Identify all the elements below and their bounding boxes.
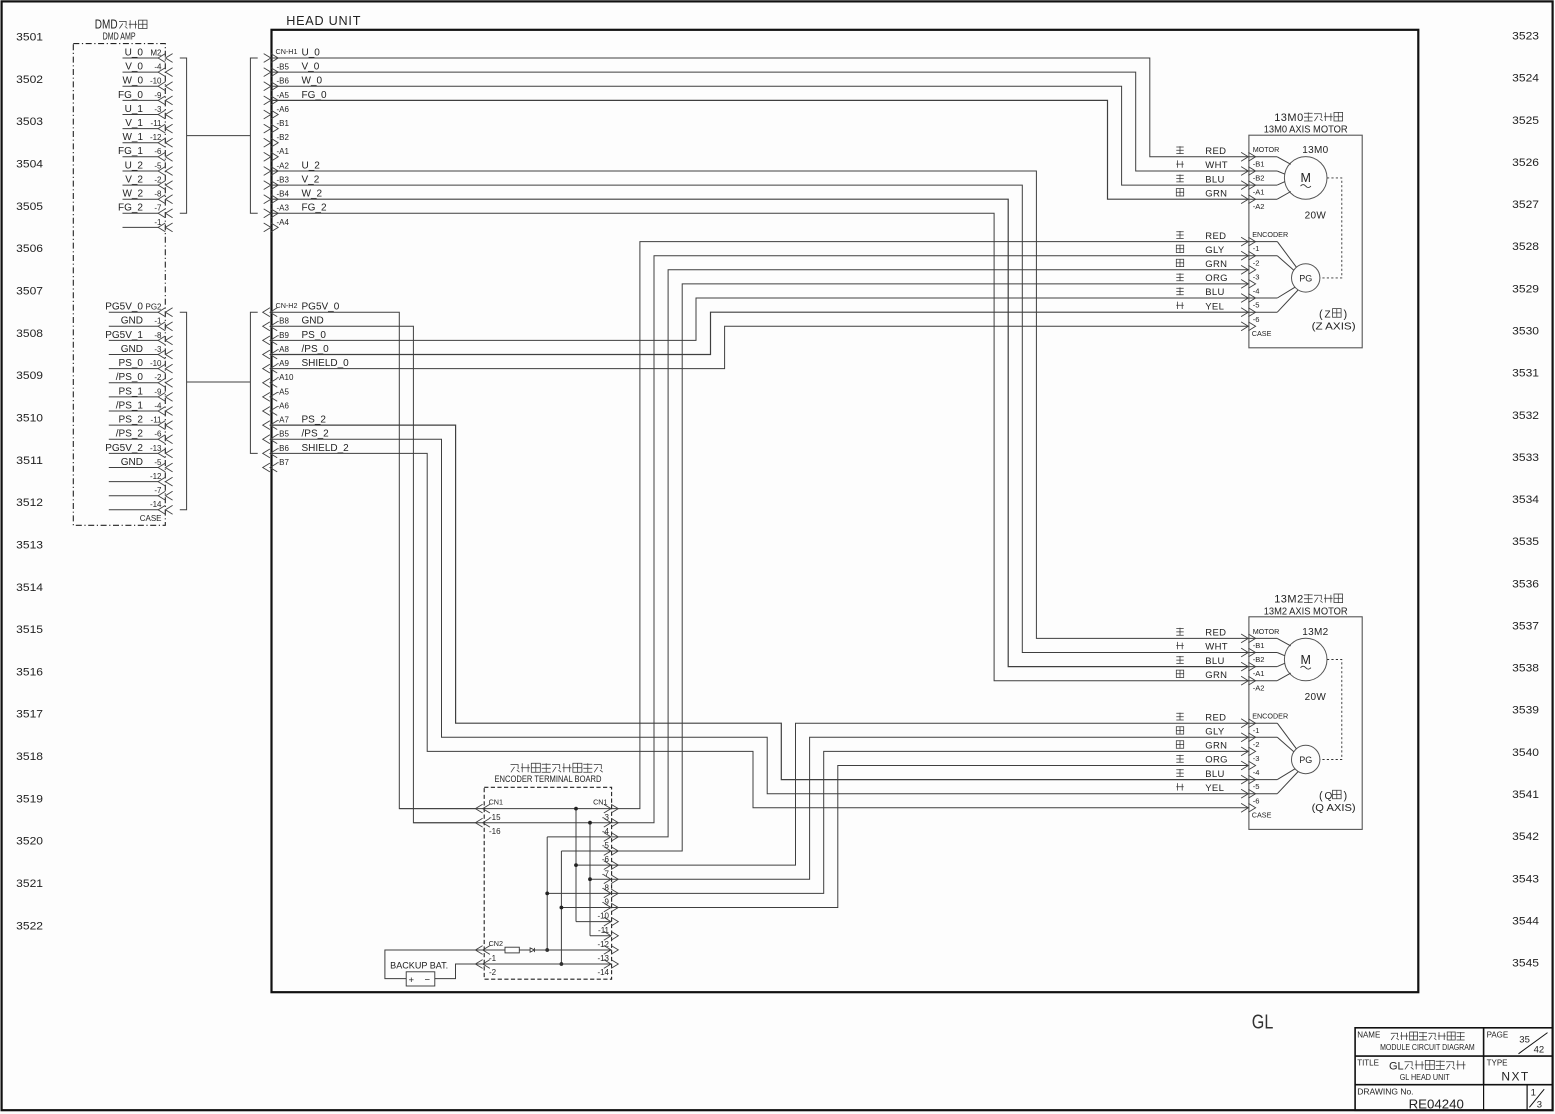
svg-text:RE04240: RE04240 bbox=[1409, 1097, 1464, 1112]
motor unit 13M2 box bbox=[1249, 617, 1362, 830]
svg-text:CASE: CASE bbox=[1252, 329, 1272, 338]
svg-text:RED: RED bbox=[1205, 231, 1226, 242]
wire /PS_2 (CN-H2 to 13M2 encoder YEL pin -5) bbox=[272, 439, 1249, 794]
svg-text:(: ( bbox=[1319, 790, 1323, 802]
svg-text:3544: 3544 bbox=[1512, 915, 1539, 927]
cable bracket DMD AMP group-2 bbox=[180, 312, 187, 510]
svg-text:-A4: -A4 bbox=[277, 218, 290, 227]
wire PS_2 (CN-H2 to 13M2 encoder BLU pin -4) bbox=[272, 425, 1249, 779]
svg-text:-B2: -B2 bbox=[277, 133, 290, 142]
svg-text:13M0 AXIS MOTOR: 13M0 AXIS MOTOR bbox=[1264, 125, 1348, 136]
svg-text:-5: -5 bbox=[602, 841, 610, 850]
wire CN1-9 to 13M2 encoder GRN pin -3 bbox=[547, 751, 1249, 893]
svg-text:FG_2: FG_2 bbox=[302, 203, 327, 214]
svg-text:-1: -1 bbox=[154, 218, 162, 227]
svg-text:GRN: GRN bbox=[1205, 670, 1227, 681]
svg-text:3503: 3503 bbox=[16, 116, 43, 128]
svg-text:DMD: DMD bbox=[95, 18, 118, 32]
svg-text:-A3: -A3 bbox=[277, 204, 290, 213]
left margin line numbers 3501-3522 bbox=[16, 32, 43, 933]
wire CN1-10 to 13M2 encoder ORG pin -4 bbox=[561, 766, 1249, 908]
HEAD UNIT enclosure box bbox=[272, 30, 1419, 992]
svg-text:-B1: -B1 bbox=[1253, 159, 1265, 168]
svg-text:GND: GND bbox=[121, 316, 143, 327]
svg-text:3504: 3504 bbox=[16, 159, 43, 171]
label encoder terminal board (Japanese) bbox=[511, 765, 520, 773]
svg-text:GRN: GRN bbox=[1205, 741, 1227, 752]
svg-text:3537: 3537 bbox=[1512, 621, 1539, 633]
svg-text:PG: PG bbox=[1299, 273, 1312, 283]
svg-text:GL HEAD UNIT: GL HEAD UNIT bbox=[1400, 1072, 1450, 1082]
svg-text:-B8: -B8 bbox=[277, 317, 290, 326]
svg-text:Q: Q bbox=[1325, 791, 1333, 802]
svg-text:-8: -8 bbox=[154, 190, 162, 199]
svg-text:GL: GL bbox=[1389, 1060, 1404, 1072]
svg-text:GND: GND bbox=[121, 457, 143, 468]
cable bundle line group-1 bbox=[187, 135, 251, 137]
wire U_0 (CN-H1 to 13M0 motor RED) bbox=[272, 58, 1249, 157]
svg-text:TITLE: TITLE bbox=[1357, 1058, 1379, 1067]
encoder PG circle 13M0 bbox=[1292, 264, 1320, 292]
svg-text:PG2: PG2 bbox=[145, 303, 162, 312]
svg-text:-7: -7 bbox=[154, 204, 162, 213]
svg-text:3514: 3514 bbox=[16, 582, 43, 594]
svg-text:GLY: GLY bbox=[1205, 727, 1225, 738]
svg-text:GLY: GLY bbox=[1205, 245, 1225, 256]
svg-text:-6: -6 bbox=[154, 147, 162, 156]
svg-text:-3: -3 bbox=[154, 105, 162, 114]
svg-text:3509: 3509 bbox=[16, 370, 43, 382]
svg-text:HEAD UNIT: HEAD UNIT bbox=[286, 13, 361, 28]
wire SHIELD_0 (CN-H2 to 13M0 encoder CASE pin -6) bbox=[272, 326, 1249, 368]
right margin line numbers 3523-3545 bbox=[1512, 31, 1539, 970]
svg-text:3502: 3502 bbox=[16, 74, 43, 86]
svg-text:PG5V_0: PG5V_0 bbox=[105, 302, 143, 313]
svg-text:3501: 3501 bbox=[16, 32, 43, 44]
svg-text:3540: 3540 bbox=[1512, 747, 1539, 759]
wire BAT+ net CN1-5 to 13M0 encoder GRN pin -3 bbox=[547, 270, 1249, 837]
svg-text:3543: 3543 bbox=[1512, 873, 1539, 885]
encoder PG circle 13M2 bbox=[1292, 745, 1320, 773]
wire PG5V_0 (CN-H2 down to terminal board CN1-15) bbox=[272, 312, 476, 808]
diode D1 bbox=[530, 948, 534, 952]
cable bracket CN-H1 side bbox=[250, 58, 257, 213]
svg-text:3507: 3507 bbox=[16, 286, 43, 298]
svg-text:-A7: -A7 bbox=[277, 416, 290, 425]
svg-text:W_2: W_2 bbox=[302, 189, 323, 200]
svg-text:3512: 3512 bbox=[16, 497, 43, 509]
svg-text:-B5: -B5 bbox=[277, 63, 290, 72]
svg-text:CASE: CASE bbox=[140, 514, 162, 523]
svg-text:13M0: 13M0 bbox=[1302, 145, 1328, 156]
svg-text:W_1: W_1 bbox=[122, 132, 143, 143]
svg-text:-B9: -B9 bbox=[277, 331, 290, 340]
svg-text:3532: 3532 bbox=[1512, 410, 1539, 422]
svg-text:20W: 20W bbox=[1305, 692, 1327, 703]
svg-text:FG_1: FG_1 bbox=[118, 146, 143, 157]
connector CN1 left side pins -15 -16 bbox=[475, 797, 503, 836]
svg-text:1: 1 bbox=[1531, 1088, 1536, 1099]
svg-text:V_2: V_2 bbox=[125, 175, 143, 186]
wire GND net CN1-4 to 13M0 encoder GLY pin -2 bbox=[612, 256, 1249, 823]
svg-text:−: − bbox=[425, 974, 431, 985]
svg-text:3510: 3510 bbox=[16, 413, 43, 425]
svg-text:): ) bbox=[1344, 790, 1348, 802]
svg-text:3516: 3516 bbox=[16, 666, 43, 678]
svg-text:-B6: -B6 bbox=[277, 77, 290, 86]
svg-text:-2: -2 bbox=[1253, 258, 1260, 267]
connector PG2 (DMD AMP) group-2 pins with wires and chevrons bbox=[105, 302, 172, 317]
svg-text:-4: -4 bbox=[154, 63, 162, 72]
svg-text:-13: -13 bbox=[150, 444, 162, 453]
svg-text:3534: 3534 bbox=[1512, 494, 1539, 506]
wire FG_2 (to 13M2 GRN) bbox=[272, 213, 1249, 680]
svg-text:-A5: -A5 bbox=[277, 387, 290, 396]
svg-text:3523: 3523 bbox=[1512, 31, 1539, 43]
svg-text:3536: 3536 bbox=[1512, 578, 1539, 590]
DMD AMP dashed enclosure bbox=[73, 44, 165, 526]
wires ENCODER pins to PG circle bbox=[1277, 723, 1298, 794]
svg-text:-2: -2 bbox=[154, 373, 162, 382]
connector CN1 right side pins -3 .. -14 bbox=[593, 797, 618, 977]
svg-text:PS_2: PS_2 bbox=[302, 415, 327, 426]
svg-text:ORG: ORG bbox=[1205, 755, 1228, 766]
wire CN1-8 to 13M2 encoder GLY pin -2 bbox=[590, 737, 1249, 879]
title block table bbox=[1355, 1028, 1553, 1111]
svg-text:V_1: V_1 bbox=[125, 118, 143, 129]
svg-text:ENCODER TERMINAL BOARD: ENCODER TERMINAL BOARD bbox=[495, 774, 602, 784]
svg-text:GL: GL bbox=[1252, 1012, 1274, 1034]
svg-text:W_2: W_2 bbox=[122, 189, 143, 200]
svg-text:PG5V_2: PG5V_2 bbox=[105, 443, 143, 454]
svg-text:3531: 3531 bbox=[1512, 368, 1539, 380]
svg-text:FG_2: FG_2 bbox=[118, 203, 143, 214]
connector ENCODER pins of 13M0 bbox=[1241, 230, 1288, 338]
svg-text:-1: -1 bbox=[1253, 726, 1260, 735]
svg-text:-A1: -A1 bbox=[1253, 669, 1265, 678]
svg-text:-14: -14 bbox=[150, 500, 162, 509]
svg-text:U_1: U_1 bbox=[125, 104, 144, 115]
svg-text:U_0: U_0 bbox=[302, 47, 321, 58]
title block texts bbox=[1357, 1030, 1547, 1111]
svg-text:3545: 3545 bbox=[1512, 958, 1539, 970]
svg-text:RED: RED bbox=[1205, 712, 1226, 723]
connector MOTOR pins of 13M2 bbox=[1241, 627, 1279, 693]
svg-text:SHIELD_2: SHIELD_2 bbox=[302, 443, 350, 454]
resistor R1 (battery series) bbox=[505, 947, 519, 953]
wire /PS_0 (CN-H2 to 13M0 encoder YEL pin -5) bbox=[272, 312, 1249, 354]
svg-text:-5: -5 bbox=[1253, 301, 1260, 310]
svg-text:CN-H2: CN-H2 bbox=[276, 301, 298, 310]
svg-text:3528: 3528 bbox=[1512, 241, 1539, 253]
wire colour labels (kanji + abbrev) for 13M0 motor pins bbox=[1176, 146, 1228, 312]
svg-text:-B2: -B2 bbox=[1253, 655, 1265, 664]
wire W_0 (to 13M0 BLU) bbox=[272, 86, 1249, 185]
svg-text:U_0: U_0 bbox=[125, 47, 144, 58]
svg-text:(: ( bbox=[1319, 308, 1323, 320]
svg-text:-10: -10 bbox=[150, 359, 162, 368]
svg-text:3524: 3524 bbox=[1512, 73, 1539, 85]
svg-text:BLU: BLU bbox=[1205, 174, 1224, 185]
junction dots on terminal board rails bbox=[574, 807, 578, 811]
svg-text:3541: 3541 bbox=[1512, 789, 1539, 801]
svg-text:-8: -8 bbox=[154, 331, 162, 340]
connector MOTOR pins of 13M0 bbox=[1241, 145, 1279, 211]
svg-text:MOTOR: MOTOR bbox=[1253, 627, 1280, 636]
motor M circle 13M2 bbox=[1284, 627, 1328, 703]
svg-text:-8: -8 bbox=[602, 884, 610, 893]
wire V_2 (to 13M2 WHT) bbox=[272, 185, 1249, 652]
svg-text:-10: -10 bbox=[150, 77, 162, 86]
wire PS_0 (CN-H2 to 13M0 encoder BLU pin -4) bbox=[272, 298, 1249, 340]
cable bundle line group-2 bbox=[187, 381, 251, 383]
svg-text:M: M bbox=[1300, 171, 1310, 185]
svg-text:-3: -3 bbox=[1253, 754, 1260, 763]
svg-text:-B5: -B5 bbox=[277, 430, 290, 439]
wire stub CN1-12 bbox=[590, 935, 612, 937]
svg-text:GRN: GRN bbox=[1205, 188, 1227, 199]
svg-text:-14: -14 bbox=[597, 968, 609, 977]
svg-text:-9: -9 bbox=[154, 387, 162, 396]
svg-text:20W: 20W bbox=[1305, 210, 1327, 221]
svg-text:Z: Z bbox=[1325, 309, 1331, 320]
svg-text:ORG: ORG bbox=[1205, 273, 1228, 284]
svg-text:PS_0: PS_0 bbox=[302, 330, 327, 341]
svg-text:3515: 3515 bbox=[16, 624, 43, 636]
label axis name (Z AXIS) bbox=[1312, 308, 1356, 332]
dashed mechanical link M to PG bbox=[1320, 660, 1342, 760]
svg-text:M: M bbox=[1300, 653, 1310, 667]
svg-text:CN1: CN1 bbox=[489, 797, 503, 806]
svg-text:-A10: -A10 bbox=[277, 373, 294, 382]
svg-text:-3: -3 bbox=[154, 345, 162, 354]
wire PG5V net CN1-3 to 13M0 encoder RED pin -1 bbox=[612, 242, 1249, 809]
svg-text:3522: 3522 bbox=[16, 920, 43, 932]
svg-text:-6: -6 bbox=[602, 855, 610, 864]
svg-text:13M2 AXIS MOTOR: 13M2 AXIS MOTOR bbox=[1264, 606, 1348, 617]
svg-text:BACKUP BAT.: BACKUP BAT. bbox=[390, 960, 448, 970]
svg-text:-4: -4 bbox=[1253, 768, 1260, 777]
svg-text:-3: -3 bbox=[602, 813, 610, 822]
svg-text:M2: M2 bbox=[150, 48, 162, 57]
connector ENCODER pins of 13M2 bbox=[1241, 712, 1288, 820]
svg-text:BLU: BLU bbox=[1205, 769, 1224, 780]
svg-text:-A2: -A2 bbox=[1253, 683, 1265, 692]
wire V_0 (to 13M0 WHT) bbox=[272, 72, 1249, 171]
svg-text:-7: -7 bbox=[154, 486, 162, 495]
svg-text:-B1: -B1 bbox=[1253, 641, 1265, 650]
svg-text:-B6: -B6 bbox=[277, 444, 290, 453]
svg-text:-A2: -A2 bbox=[1253, 202, 1265, 211]
svg-text:NAME: NAME bbox=[1357, 1030, 1380, 1039]
svg-text:/PS_0: /PS_0 bbox=[302, 344, 330, 355]
wire CN1-16 through to CN1-4 (GND rail) bbox=[413, 822, 611, 824]
svg-text:3530: 3530 bbox=[1512, 326, 1539, 338]
svg-text:DRAWING No.: DRAWING No. bbox=[1357, 1086, 1413, 1096]
svg-text:3526: 3526 bbox=[1512, 157, 1539, 169]
svg-text:-5: -5 bbox=[154, 161, 162, 170]
svg-text:3506: 3506 bbox=[16, 243, 43, 255]
svg-text:-B7: -B7 bbox=[277, 458, 290, 467]
svg-text:MODULE CIRCUIT DIAGRAM: MODULE CIRCUIT DIAGRAM bbox=[1380, 1042, 1475, 1052]
connector CN-H2 pins, chevrons and labels bbox=[263, 301, 340, 317]
svg-text:3538: 3538 bbox=[1512, 663, 1539, 675]
internal rail GND vertical (CN1-16 to CN1-8/-12) bbox=[589, 823, 591, 936]
svg-text:-A1: -A1 bbox=[277, 147, 290, 156]
svg-text:CN-H1: CN-H1 bbox=[276, 47, 298, 56]
svg-text:DMD AMP: DMD AMP bbox=[103, 32, 136, 43]
svg-text:GND: GND bbox=[302, 316, 324, 327]
svg-text:-A1: -A1 bbox=[1253, 188, 1265, 197]
svg-text:WHT: WHT bbox=[1205, 160, 1228, 171]
svg-text:3508: 3508 bbox=[16, 328, 43, 340]
svg-text:13M2: 13M2 bbox=[1274, 594, 1304, 606]
svg-text:-A2: -A2 bbox=[277, 161, 290, 170]
cable bracket DMD AMP group-1 bbox=[180, 58, 187, 213]
svg-text:35: 35 bbox=[1519, 1035, 1530, 1046]
wires MOTOR pins to M circle bbox=[1277, 157, 1291, 199]
svg-text:-A5: -A5 bbox=[277, 91, 290, 100]
svg-text:3511: 3511 bbox=[16, 455, 43, 467]
svg-text:PS_0: PS_0 bbox=[119, 358, 144, 369]
svg-text:WHT: WHT bbox=[1205, 642, 1228, 653]
svg-text:3539: 3539 bbox=[1512, 705, 1539, 717]
wire BAT- net CN1-6 to 13M0 encoder ORG pin -4 bbox=[561, 284, 1249, 851]
connector M2 (DMD AMP) group-1 pins with wires and chevrons bbox=[123, 47, 173, 62]
svg-text:+: + bbox=[409, 975, 415, 986]
svg-text:PG: PG bbox=[1299, 755, 1312, 765]
svg-text:13M2: 13M2 bbox=[1302, 627, 1328, 638]
svg-text:RED: RED bbox=[1205, 146, 1226, 157]
svg-text:FG_0: FG_0 bbox=[118, 90, 143, 101]
svg-text:3518: 3518 bbox=[16, 751, 43, 763]
svg-text:-4: -4 bbox=[154, 401, 162, 410]
svg-text:V_0: V_0 bbox=[125, 62, 143, 73]
svg-text:3513: 3513 bbox=[16, 539, 43, 551]
svg-text:V_0: V_0 bbox=[302, 62, 320, 73]
svg-text:-A9: -A9 bbox=[277, 359, 290, 368]
svg-text:V_2: V_2 bbox=[302, 175, 320, 186]
wire CN2-1 battery + line with resistor and diode bbox=[476, 949, 505, 951]
svg-text:-9: -9 bbox=[602, 898, 610, 907]
svg-text:U_2: U_2 bbox=[302, 160, 321, 171]
svg-text:3529: 3529 bbox=[1512, 283, 1539, 295]
wire battery - lead bbox=[435, 964, 476, 979]
svg-text:3533: 3533 bbox=[1512, 452, 1539, 464]
wire stub CN1-11 bbox=[576, 921, 612, 923]
wire battery + lead bbox=[385, 950, 476, 979]
label axis name (Q AXIS) bbox=[1312, 790, 1356, 814]
svg-text:PAGE: PAGE bbox=[1487, 1030, 1509, 1039]
svg-text:PG5V_0: PG5V_0 bbox=[302, 302, 340, 313]
svg-text:RED: RED bbox=[1205, 628, 1226, 639]
svg-text:-1: -1 bbox=[1253, 244, 1260, 253]
svg-text:-4: -4 bbox=[602, 827, 610, 836]
svg-text:CASE: CASE bbox=[1252, 811, 1272, 820]
wire SHIELD_2 (CN-H2 to 13M2 encoder CASE pin -6) bbox=[272, 453, 1249, 807]
svg-text:-1: -1 bbox=[489, 954, 497, 963]
svg-text:-4: -4 bbox=[1253, 287, 1260, 296]
svg-text:3: 3 bbox=[1537, 1100, 1542, 1111]
wire CN2-2 battery - line bbox=[456, 963, 612, 965]
svg-text:YEL: YEL bbox=[1205, 783, 1224, 794]
svg-text:-2: -2 bbox=[489, 968, 497, 977]
svg-text:3505: 3505 bbox=[16, 201, 43, 213]
svg-text:U_2: U_2 bbox=[125, 160, 144, 171]
cable bracket CN-H2 side bbox=[250, 312, 257, 453]
svg-text:SHIELD_0: SHIELD_0 bbox=[302, 358, 350, 369]
svg-text:-16: -16 bbox=[489, 827, 501, 836]
svg-text:BLU: BLU bbox=[1205, 656, 1224, 667]
svg-text:/PS_1: /PS_1 bbox=[116, 400, 144, 411]
svg-text:-2: -2 bbox=[154, 176, 162, 185]
svg-text:W_0: W_0 bbox=[122, 76, 143, 87]
svg-text:-12: -12 bbox=[150, 472, 162, 481]
svg-text:-6: -6 bbox=[1253, 796, 1260, 805]
svg-text:3521: 3521 bbox=[16, 878, 43, 890]
dashed mechanical link M to PG bbox=[1320, 178, 1342, 278]
svg-text:GND: GND bbox=[121, 344, 143, 355]
motor unit 13M0 box bbox=[1249, 135, 1362, 348]
svg-text:FG_0: FG_0 bbox=[302, 90, 327, 101]
svg-text:-9: -9 bbox=[154, 91, 162, 100]
svg-text:W_0: W_0 bbox=[302, 76, 323, 87]
svg-text:-5: -5 bbox=[154, 458, 162, 467]
svg-text:3527: 3527 bbox=[1512, 199, 1539, 211]
svg-text:-A8: -A8 bbox=[277, 345, 290, 354]
svg-text:-3: -3 bbox=[1253, 272, 1260, 281]
svg-text:(Q AXIS): (Q AXIS) bbox=[1312, 803, 1356, 814]
wires MOTOR pins to M circle bbox=[1277, 638, 1291, 680]
svg-text:-B1: -B1 bbox=[277, 119, 290, 128]
svg-text:MOTOR: MOTOR bbox=[1253, 145, 1280, 154]
wires ENCODER pins to PG circle bbox=[1277, 242, 1298, 313]
svg-text:PG5V_1: PG5V_1 bbox=[105, 330, 143, 341]
svg-text:NXT: NXT bbox=[1501, 1070, 1529, 1084]
svg-text:3520: 3520 bbox=[16, 836, 43, 848]
svg-text:PS_1: PS_1 bbox=[119, 386, 144, 397]
motor M circle 13M0 bbox=[1284, 145, 1328, 221]
svg-text:BLU: BLU bbox=[1205, 287, 1224, 298]
svg-text:YEL: YEL bbox=[1205, 301, 1224, 312]
svg-text:CN2: CN2 bbox=[489, 939, 503, 948]
svg-text:-15: -15 bbox=[489, 813, 501, 822]
svg-text:/PS_0: /PS_0 bbox=[116, 372, 144, 383]
connector CN2 pins -1 -2 bbox=[475, 939, 503, 977]
svg-text:ENCODER: ENCODER bbox=[1252, 712, 1288, 721]
svg-text:13M0: 13M0 bbox=[1274, 112, 1304, 124]
wire CN1-7 to 13M2 encoder RED pin -1 bbox=[576, 723, 1249, 865]
svg-text:/PS_2: /PS_2 bbox=[116, 429, 144, 440]
svg-text:3535: 3535 bbox=[1512, 536, 1539, 548]
svg-text:-B3: -B3 bbox=[277, 176, 290, 185]
wire U_2 (CN-H1 to 13M2 motor RED) bbox=[272, 171, 1249, 638]
svg-text:42: 42 bbox=[1534, 1045, 1545, 1056]
svg-text:-5: -5 bbox=[1253, 782, 1260, 791]
svg-text:3542: 3542 bbox=[1512, 831, 1539, 843]
wire GND (CN-H2 down to terminal board CN1-16) bbox=[272, 326, 476, 822]
svg-text:-11: -11 bbox=[151, 119, 163, 128]
svg-text:3519: 3519 bbox=[16, 793, 43, 805]
svg-text:-7: -7 bbox=[602, 869, 610, 878]
wire FG_0 (to 13M0 GRN) bbox=[272, 100, 1249, 199]
connector CN-H1 pins, chevrons and labels bbox=[264, 47, 321, 63]
wire colour labels (kanji + abbrev) for 13M2 motor pins bbox=[1176, 628, 1228, 794]
svg-text:PS_2: PS_2 bbox=[119, 415, 144, 426]
svg-text:3517: 3517 bbox=[16, 709, 43, 721]
svg-text:-6: -6 bbox=[154, 430, 162, 439]
svg-text:CN1: CN1 bbox=[593, 797, 607, 806]
